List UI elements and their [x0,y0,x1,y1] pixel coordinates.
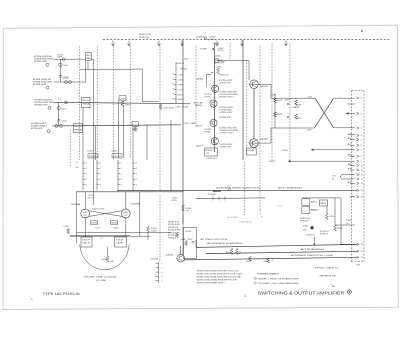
svg-text:Q4579: Q4579 [260,86,269,88]
svg-text:(ALTERNATE BLANKING): (ALTERNATE BLANKING) [207,242,244,245]
svg-text:3: 3 [162,268,163,270]
svg-text:2: 2 [361,113,362,115]
svg-text:R4524 C4524: R4524 C4524 [92,208,104,210]
svg-text:19: 19 [361,244,363,246]
svg-text:GEOM: GEOM [193,102,203,104]
svg-text:R4598: R4598 [337,228,343,230]
svg-text:(DCPL): (DCPL) [209,39,216,41]
svg-text:-150V: -150V [178,89,184,91]
svg-text:14: 14 [361,183,363,185]
svg-text:EXTRNL HORIZ SIGNAL FROM VERT: EXTRNL HORIZ SIGNAL FROM VERT PLUG IN CO… [197,272,243,275]
svg-text:FROM +GATE J4: FROM +GATE J4 [315,267,338,270]
svg-text:AUXY BLANKING: AUXY BLANKING [278,187,303,190]
svg-text:3: 3 [162,272,163,274]
svg-text:C4544: C4544 [151,231,157,233]
svg-text:R05: R05 [86,55,91,57]
svg-text:INTERCONN: INTERCONN [139,37,149,39]
svg-text:DELAY LINE DL4548: DELAY LINE DL4548 [84,276,118,279]
svg-text:4.7: 4.7 [100,238,103,240]
svg-text:10: 10 [361,165,363,167]
svg-text:.01: .01 [346,223,348,225]
svg-text:893: 893 [332,286,335,288]
svg-text:EXTRNL HOR: EXTRNL HOR [168,227,179,229]
svg-text:SW4560: SW4560 [180,68,187,70]
svg-text:11: 11 [361,170,363,172]
svg-text:13: 13 [361,179,363,181]
svg-text:R4515: R4515 [82,100,89,102]
svg-text:1/2: 1/2 [76,162,78,164]
svg-text:(DCPL): (DCPL) [88,197,94,199]
svg-text:+100V: +100V [182,58,189,60]
svg-text:Q4577: Q4577 [196,146,204,148]
svg-text:R4585: R4585 [277,100,283,102]
svg-text:C4563: C4563 [215,56,221,58]
svg-text:(LINE ADV): (LINE ADV) [239,220,252,223]
svg-text:2: 2 [136,174,137,176]
svg-text:EXTRNL H: EXTRNL H [320,234,329,236]
svg-text:SWEEP PLUGIN: SWEEP PLUGIN [139,34,151,36]
svg-text:3: 3 [162,280,163,282]
svg-text:CRT(?): CRT(?) [277,206,283,208]
svg-text:C4578 .001: C4578 .001 [206,158,217,160]
svg-text:TYPE 1A2 PLUG-IN: TYPE 1A2 PLUG-IN [43,292,81,296]
svg-text:2: 2 [136,184,137,186]
svg-text:680: 680 [111,261,114,263]
svg-text:+100V: +100V [178,80,184,82]
svg-text:V4529B: V4529B [130,204,140,206]
svg-text:EXTRNL HORI: EXTRNL HORI [34,61,47,63]
svg-text:9: 9 [361,161,362,163]
svg-text:2: 2 [121,163,122,165]
svg-text:GND: GND [178,99,184,101]
svg-text:4X BRT: 4X BRT [200,49,207,51]
svg-text:2: 2 [136,179,137,181]
svg-text:C4599: C4599 [346,220,352,222]
svg-text:2: 2 [100,179,101,181]
svg-text:EXTRNL HORI: EXTRNL HORI [33,84,46,86]
svg-text:Q4583: Q4583 [260,139,269,141]
svg-text:12: 12 [361,174,363,176]
svg-text:GHOST ADV: GHOST ADV [227,216,239,219]
svg-text:15: 15 [361,190,363,192]
svg-text:R4589: R4589 [295,118,301,120]
svg-text:ALT TRACE SYNC PULSE: ALT TRACE SYNC PULSE [201,238,229,241]
svg-text:2: 2 [86,163,87,165]
svg-text:8: 8 [361,156,362,158]
svg-text:+100V: +100V [212,43,220,45]
svg-text:7: 7 [361,150,362,152]
svg-text:6: 6 [361,145,362,147]
svg-text:2: 2 [136,168,137,170]
svg-text:Q4569: Q4569 [195,105,203,107]
svg-text:21: 21 [361,257,363,259]
svg-text:C4546: C4546 [181,239,186,241]
svg-text:ALT BLANKING: ALT BLANKING [300,248,325,251]
svg-text:R4559: R4559 [264,261,269,263]
svg-text:C4557: C4557 [246,261,251,263]
svg-text:+225V: +225V [87,151,94,153]
svg-text:EXTRNL HORIZ: EXTRNL HORIZ [220,147,233,149]
svg-text:SWITCHING & OUTPUT AMPLIFIER: SWITCHING & OUTPUT AMPLIFIER [258,290,345,295]
svg-text:NE2: NE2 [320,203,326,205]
svg-text:+225V: +225V [178,75,184,77]
svg-text:(50 OHM): (50 OHM) [96,280,107,282]
svg-text:3: 3 [361,128,362,130]
svg-text:C4516: C4516 [61,121,66,123]
svg-text:R4526: R4526 [91,223,97,225]
svg-text:2: 2 [86,168,87,170]
svg-text:+300V: +300V [281,150,289,152]
svg-text:CATH: CATH [82,242,91,245]
svg-text:3: 3 [162,263,163,265]
svg-text:2: 2 [121,179,122,181]
svg-text:T4539: T4539 [116,240,124,242]
svg-text:Q4573: Q4573 [195,126,203,128]
svg-text:L4588: L4588 [284,100,290,102]
svg-text:SW4550: SW4550 [151,259,158,261]
svg-text:1: 1 [361,98,362,100]
svg-text:TRIGGER + LEFT VERT AMPLIFIER: TRIGGER + LEFT VERT AMPLIFIER [258,282,300,285]
svg-text:EXTRNL: EXTRNL [205,96,211,98]
svg-text:PARA: PARA [74,128,83,131]
svg-text:1: 1 [340,97,341,99]
svg-text:C4514: C4514 [61,108,66,110]
svg-text:R4548: R4548 [102,259,108,261]
svg-text:EXTRNL HORIZ SIGNAL FROM VERT: EXTRNL HORIZ SIGNAL FROM VERT PLUG IN [197,278,238,281]
svg-text:EXTRNL HO: EXTRNL HO [300,221,310,223]
svg-text:TO: TO [244,296,247,298]
svg-text:ALTERNATE TRACE SYNC PULSE: ALTERNATE TRACE SYNC PULSE [291,254,334,257]
svg-text:C4561 R4562: C4561 R4562 [163,107,174,109]
svg-text:R4556: R4556 [226,252,231,254]
svg-text:R4520: R4520 [89,156,98,158]
svg-text:2: 2 [121,184,122,186]
svg-text:EXTRNL HORI: EXTRNL HORI [220,117,231,119]
svg-text:C4537: C4537 [113,228,119,230]
svg-text:B4592: B4592 [311,210,317,212]
svg-text:PARA: PARA [82,102,90,105]
svg-text:EXTRNL HORIZ S: EXTRNL HORIZ S [220,97,235,99]
svg-text:C4516: C4516 [119,98,125,100]
svg-text:(DCPL): (DCPL) [218,50,224,52]
svg-text:C4527: C4527 [95,228,101,230]
svg-text:+12.6VAC: +12.6VAC [207,193,217,196]
svg-text:EXTRNL HORIZ S: EXTRNL HORIZ S [220,133,235,135]
svg-text:B4591: B4591 [311,202,317,204]
svg-text:R4510: R4510 [74,126,82,128]
svg-text:+225V: +225V [111,151,118,153]
svg-text:R4586: R4586 [247,150,254,152]
svg-text:2: 2 [136,163,137,165]
svg-text:EXTRNL HO: EXTRNL HO [176,63,185,65]
svg-text:R4530: R4530 [113,156,122,158]
svg-text:Q4564: Q4564 [196,79,204,81]
svg-text:R4587: R4587 [277,114,283,116]
svg-text:EXTRNL HORI: EXTRNL HORI [168,222,179,224]
svg-text:EXTRNL H: EXTRNL H [168,238,177,240]
svg-text:20: 20 [361,251,363,253]
svg-text:R4547: R4547 [188,239,193,241]
svg-text:3: 3 [162,276,163,278]
svg-text:16: 16 [361,197,363,199]
svg-text:EXTRNL HORIZ: EXTRNL HORIZ [168,230,181,232]
svg-text:L4549: L4549 [185,231,191,233]
svg-text:2: 2 [121,174,122,176]
svg-text:EXTRNL HORI: EXTRNL HORI [220,83,231,85]
svg-text:V45: V45 [76,167,79,169]
svg-text:(DCPL): (DCPL) [172,200,178,202]
svg-text:T2: T2 [228,186,230,188]
svg-text:4: 4 [361,135,362,137]
svg-text:1-1: 1-1 [58,98,61,100]
svg-text:EXTRNL HORI: EXTRNL HORI [35,104,48,106]
svg-text:REFERENCE DRAWINGS: REFERENCE DRAWINGS [258,272,280,275]
svg-text:EXTRNL: EXTRNL [205,131,211,133]
svg-text:V4529A: V4529A [71,203,81,206]
svg-text:2: 2 [86,174,87,176]
svg-text:R4516: R4516 [125,104,131,106]
svg-text:SEE PARTS LIST: SEE PARTS LIST [320,275,338,278]
svg-text:2: 2 [121,168,122,170]
svg-text:ALTERNATE SWEEP BLANK PULSE: ALTERNATE SWEEP BLANK PULSE [216,187,261,190]
svg-text:C4506: C4506 [63,77,69,79]
svg-text:(CRT GEOM): (CRT GEOM) [176,106,189,108]
svg-text:R4578: R4578 [206,150,213,152]
svg-text:EXTRNL HORIZ: EXTRNL HORIZ [220,112,234,114]
svg-text:2: 2 [86,179,87,181]
svg-text:470: 470 [239,252,242,254]
svg-text:4XBRT: 4XBRT [196,36,205,38]
svg-text:SWEEP + RIGHT VERT AMPLIFIER: SWEEP + RIGHT VERT AMPLIFIER [258,277,300,280]
svg-text:2: 2 [100,184,101,186]
svg-text:47: 47 [272,260,274,262]
svg-text:2: 2 [86,184,87,186]
svg-text:5: 5 [361,139,362,141]
svg-text:C4504: C4504 [63,65,69,67]
svg-text:T4529: T4529 [82,240,90,242]
svg-text:2: 2 [100,174,101,176]
svg-text:R4595: R4595 [329,216,335,218]
svg-text:2: 2 [100,168,101,170]
svg-text:Q4548: Q4548 [166,255,175,257]
svg-text:R4536: R4536 [111,223,117,225]
svg-text:EXTRNL HORIZ SIGNAL FROM V: EXTRNL HORIZ SIGNAL FROM V [197,281,226,284]
svg-text:R4597: R4597 [303,226,309,228]
svg-text:EXTRNL HORIZ SIGNAL FROM VERT: EXTRNL HORIZ SIGNAL FROM VERT PLUG IN CO [197,269,239,272]
svg-text:R4540: R4540 [64,226,69,228]
svg-text:EXTRNL HORIZ SIGNAL FROM VERT: EXTRNL HORIZ SIGNAL FROM VERT PLUG IN CO… [197,275,241,278]
svg-text:+125V: +125V [268,161,276,163]
svg-text:EXTRNL HORIZ: EXTRNL HORIZ [168,224,181,226]
svg-text:R4570 1K: R4570 1K [220,75,230,77]
svg-text:2: 2 [100,163,101,165]
svg-text:CATH: CATH [116,242,125,245]
svg-text:EXTRNL HOR: EXTRNL HOR [31,128,42,130]
svg-text:C4599 4.7: C4599 4.7 [306,235,315,237]
svg-text:EXTRNL HOR: EXTRNL HOR [214,63,225,65]
